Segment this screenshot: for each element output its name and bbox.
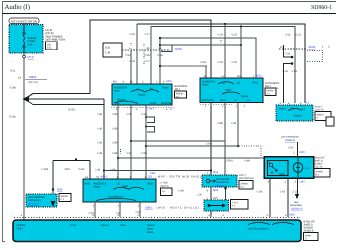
- shield box label: [103, 43, 122, 57]
- svg-text:0.5B: 0.5B: [218, 61, 224, 64]
- svg-text:ASSGLE: ASSGLE: [304, 230, 314, 233]
- wire amp out 1: [269, 178, 271, 217]
- condenser dashed box U4: [276, 105, 313, 121]
- see ground distribution dashed box: [26, 194, 57, 207]
- wire: y170 branch to amp box: [104, 170, 211, 172]
- antenna note box: [59, 194, 71, 202]
- svg-text:SP40: SP40: [150, 102, 157, 105]
- svg-text:0.5B: 0.5B: [130, 60, 136, 63]
- svg-text:0.5WL: 0.5WL: [226, 160, 234, 163]
- audio input unit box U2: [112, 84, 173, 105]
- svg-text:SD960-2: SD960-2: [216, 184, 226, 187]
- node 241,45: [240, 44, 242, 46]
- svg-text:Head: Head: [202, 84, 209, 87]
- svg-text:P1: P1: [247, 99, 251, 102]
- jog at junction J/C01: [160, 45, 172, 52]
- svg-text:105: 105: [148, 176, 153, 179]
- twisted pair dots x221: [220, 40, 222, 47]
- wire merge arrow: [23, 96, 30, 103]
- svg-text:B.B: B.B: [106, 47, 111, 50]
- svg-text:AMP: AMP: [279, 173, 285, 176]
- wire x146: [145, 105, 147, 179]
- dotted option wire to amp: [239, 146, 261, 157]
- node rear branch: [130, 140, 132, 142]
- wire x53 to ground: [52, 161, 54, 202]
- node at 104,170: [103, 169, 105, 171]
- svg-text:0.5Bv: 0.5Bv: [112, 128, 119, 131]
- node 160,38: [159, 37, 161, 39]
- svg-text:B1: B1: [237, 82, 241, 85]
- wire x225 from head unit down: [224, 103, 226, 123]
- note right of input box: [175, 85, 188, 99]
- connector row below head unit: [200, 104, 232, 106]
- svg-text:Input: Input: [114, 90, 120, 93]
- wire x90 to sound board: [89, 161, 91, 180]
- svg-text:I/P-E: I/P-E: [28, 55, 35, 59]
- svg-text:0.5BL: 0.5BL: [217, 122, 224, 125]
- wire below board 2: [119, 202, 121, 217]
- dotted box J/C02: [307, 51, 323, 62]
- svg-text:B1: B1: [116, 102, 120, 105]
- svg-text:0.5Bv: 0.5Bv: [112, 113, 119, 116]
- pins below sound board: [93, 205, 199, 210]
- pin 4b bottom + M02: [285, 214, 295, 217]
- svg-text:0.2B+: 0.2B+: [141, 152, 148, 155]
- svg-text:15A: 15A: [28, 42, 33, 46]
- svg-text:0.5Bv: 0.5Bv: [110, 169, 117, 172]
- wire x225 down: [224, 24, 226, 78]
- wire to amplifier top: [297, 142, 299, 157]
- wire x118 front speaker: [117, 105, 119, 179]
- amplifier box U6: [264, 157, 314, 179]
- note right of head unit: [265, 82, 280, 96]
- condenser pins above: [280, 102, 310, 105]
- page top border: [2, 1, 336, 3]
- wire y141 to x225: [131, 141, 225, 189]
- node 160,66: [159, 65, 161, 67]
- svg-text:UNIT: UNIT: [17, 227, 24, 231]
- svg-text:3 Kb: 3 Kb: [280, 191, 286, 194]
- svg-text:Front: Front: [70, 224, 76, 227]
- svg-text:(W/B - ROUTE SHIELD): (W/B - ROUTE SHIELD): [157, 207, 199, 210]
- note right of sound board: [161, 182, 173, 196]
- svg-text:0.5B: 0.5B: [285, 53, 291, 56]
- svg-text:SD-100-2: SD-100-2: [28, 203, 39, 206]
- wire below board 1: [94, 202, 96, 217]
- svg-text:AMP: AMP: [225, 89, 231, 92]
- svg-text:5.1G: 5.1G: [292, 70, 298, 73]
- dotted wire x144: [143, 44, 145, 64]
- svg-text:L4N: L4N: [300, 180, 305, 183]
- svg-text:P.Ba: P.Ba: [120, 224, 126, 227]
- wire x225 lower segment: [224, 122, 226, 141]
- svg-text:GROUND: GROUND: [202, 99, 214, 102]
- wire: battery branch to x104 upper: [27, 98, 104, 100]
- svg-text:Audio (I): Audio (I): [5, 4, 30, 11]
- svg-text:0.5B: 0.5B: [130, 33, 136, 36]
- node woofer branch: [145, 145, 147, 147]
- wire: loop from bus1 down-left to battery node: [27, 20, 211, 175]
- wire y158 to amplifier: [118, 157, 264, 159]
- svg-text:0.5G: 0.5G: [232, 34, 238, 37]
- svg-text:0.5B: 0.5B: [296, 34, 302, 37]
- footnote 1: [148, 176, 205, 179]
- svg-text:101: 101: [47, 47, 52, 50]
- svg-text:0.2B+: 0.2B+: [141, 113, 148, 116]
- pins above sound board: [85, 172, 155, 179]
- svg-text:M14: M14: [213, 171, 219, 174]
- svg-text:0.5B: 0.5B: [285, 34, 291, 37]
- wire x207 down: [205, 66, 207, 78]
- see connection note: [281, 136, 299, 143]
- svg-text:C.M: C.M: [105, 52, 111, 55]
- page left border: [3, 2, 6, 242]
- wire: battery branch to x104 lower: [27, 101, 104, 105]
- svg-text:0.4B: 0.4B: [97, 142, 102, 145]
- svg-text:IPM1: IPM1: [252, 82, 259, 85]
- bus wire upper black y24: [137, 24, 305, 103]
- svg-text:0.5Gr: 0.5Gr: [68, 108, 75, 112]
- node G06: [52, 188, 54, 190]
- svg-text:0.4BL: 0.4BL: [257, 191, 264, 194]
- note right of audio unit: [304, 221, 319, 241]
- pins above audio input box: [113, 80, 172, 84]
- pin below amp box: [207, 189, 219, 192]
- wire x137 down to audio unit input: [136, 24, 138, 84]
- svg-text:B1: B1: [117, 183, 121, 186]
- connector ring I/P-E: [23, 55, 26, 58]
- splice jog lower: [284, 62, 294, 103]
- svg-text:0.5G: 0.5G: [288, 147, 293, 150]
- wire below board 3: [139, 202, 141, 217]
- twisted pair dots x120: [120, 149, 122, 155]
- svg-text:0.5Gr: 0.5Gr: [200, 61, 207, 64]
- svg-text:Signal: Signal: [241, 95, 249, 98]
- svg-text:0.5Bv: 0.5Bv: [112, 142, 119, 145]
- connector row C01 dashed: [122, 49, 170, 51]
- svg-text:J/C02: J/C02: [308, 45, 316, 49]
- svg-text:M10: M10: [167, 80, 173, 83]
- svg-text:M4: M4: [113, 81, 117, 84]
- label HOT IN ACC OR ON: [9, 18, 39, 24]
- svg-text:22: 22: [170, 108, 173, 111]
- svg-text:3.0B: 3.0B: [231, 122, 236, 125]
- wire x151 down: [150, 27, 152, 85]
- svg-text:5.8W: 5.8W: [79, 168, 85, 171]
- twisted pair jog A: [145, 116, 155, 123]
- svg-text:0.4Bv: 0.4Bv: [244, 160, 251, 163]
- wire y38 branch: [160, 38, 256, 78]
- pin 1 902: [207, 197, 218, 200]
- svg-text:Mode: Mode: [147, 231, 154, 234]
- node option tap: [224, 187, 226, 189]
- pin 2 amp top: [293, 151, 304, 154]
- svg-text:(SD960-4): (SD960-4): [291, 208, 303, 211]
- pins above head unit box: [204, 75, 255, 78]
- note right of amplifier: [314, 157, 330, 178]
- svg-text:1.2B: 1.2B: [197, 194, 202, 197]
- svg-text:AM.1: AM.1: [175, 88, 181, 91]
- note right of amp box: [239, 174, 255, 189]
- svg-text:M02: M02: [290, 214, 296, 217]
- pin above amp note box: [207, 171, 219, 174]
- ground G06 symbol: [51, 201, 56, 207]
- pins below input box: [116, 108, 173, 111]
- option splice dashed box: [204, 200, 229, 211]
- svg-text:0.5G: 0.5G: [232, 61, 238, 64]
- wire below amp box: [210, 187, 212, 217]
- svg-text:GND: GND: [85, 183, 91, 186]
- svg-text:C4B-1: C4B-1: [145, 207, 153, 210]
- continuation arrow down: [295, 194, 299, 199]
- title underline: [2, 13, 336, 15]
- svg-text:DISTRIBUTION: DISTRIBUTION: [46, 38, 66, 42]
- fuse F1 AUDIO 15A: [23, 25, 37, 54]
- svg-text:0.5Y: 0.5Y: [145, 33, 151, 36]
- bus wire gray y26.5: [151, 27, 295, 104]
- svg-text:L2: L2: [306, 102, 309, 105]
- wire amp out 3 with arrow: [297, 178, 299, 194]
- node 238,146: [237, 145, 239, 147]
- svg-text:TD4-2: TD4-2: [147, 108, 155, 111]
- note right of condenser: [315, 106, 334, 127]
- svg-text:0.4B: 0.4B: [97, 113, 102, 116]
- connector row J/C02 dashed: [279, 48, 307, 50]
- svg-text:0.5B: 0.5B: [127, 152, 132, 155]
- svg-text:SP40: SP40: [220, 99, 227, 102]
- svg-text:LOC.10: LOC.10: [314, 166, 323, 169]
- wire x238 from head unit down: [237, 103, 239, 147]
- svg-text:0.4B: 0.4B: [97, 152, 102, 155]
- svg-text:(I/P 1.0): (I/P 1.0): [29, 81, 38, 84]
- svg-text:G06: G06: [57, 188, 63, 192]
- sound board box U5: [83, 179, 156, 202]
- node on bus y26.5: [240, 25, 242, 27]
- svg-text:(59dB-4): (59dB-4): [285, 139, 295, 142]
- node front-left branch: [117, 157, 119, 159]
- svg-text:0.5Bv: 0.5Bv: [112, 152, 119, 155]
- svg-text:LCD-TV: LCD-TV: [315, 109, 324, 112]
- tick on rail: [75, 159, 77, 162]
- svg-text:HOT IN ACC OR ON: HOT IN ACC OR ON: [11, 19, 37, 23]
- ground rail: [53, 160, 90, 162]
- svg-text:0.5Y: 0.5Y: [145, 60, 151, 63]
- svg-text:Drivel: Drivel: [279, 108, 286, 111]
- connector row below input box: [111, 107, 176, 109]
- svg-text:0.5B: 0.5B: [127, 113, 132, 116]
- wire y66 branch: [160, 65, 207, 67]
- svg-text:0.5ln: 0.5ln: [125, 54, 131, 57]
- wire: main battery feed 0.5Br: [23, 53, 25, 220]
- svg-text:3KW: 3KW: [65, 168, 71, 171]
- svg-text:GND: GND: [147, 183, 153, 186]
- wire x131: [130, 105, 132, 179]
- pins below head unit: [205, 105, 246, 108]
- svg-text:SD960-1: SD960-1: [311, 5, 332, 11]
- svg-text:: W/R - R5/TR W/B SHIELD: : W/R - R5/TR W/B SHIELD: [155, 176, 204, 179]
- svg-text:ILL.: ILL.: [306, 167, 310, 170]
- amp option dashed box U8: [202, 175, 237, 187]
- wire x160 down: [159, 38, 161, 84]
- bottom connector dashed row: [14, 217, 300, 219]
- audio head unit box U3: [200, 78, 263, 103]
- svg-text:0.5B: 0.5B: [283, 70, 289, 73]
- svg-text:0.4B: 0.4B: [95, 169, 100, 172]
- wire: x104 vertical black to sound board: [103, 99, 105, 179]
- svg-text:0.5L: 0.5L: [10, 69, 16, 73]
- svg-text:0.3KB: 0.3KB: [42, 168, 49, 171]
- svg-text:0.4B: 0.4B: [97, 128, 102, 131]
- svg-text:0.5Br: 0.5Br: [144, 54, 150, 57]
- wire y146 to x238: [146, 145, 238, 147]
- twisted pair jog B: [145, 126, 155, 133]
- see ground note: [290, 201, 303, 211]
- svg-text:0.4BL: 0.4BL: [178, 190, 185, 193]
- fuse box (I/P junction box): [9, 25, 43, 54]
- svg-text:PACTO: PACTO: [161, 185, 169, 188]
- svg-text:Signal: Signal: [138, 94, 146, 97]
- svg-text:2.11: 2.11: [293, 191, 298, 194]
- node 160,45: [159, 44, 161, 46]
- svg-text:0.5Br: 0.5Br: [10, 86, 17, 90]
- joint J/M01: [18, 75, 47, 84]
- svg-text:D.1: D.1: [241, 186, 245, 189]
- wire amp out 2: [287, 178, 289, 217]
- svg-text:GROUND: GROUND: [161, 102, 173, 105]
- svg-text:M06: M06: [213, 189, 219, 192]
- svg-text:AM.1: AM.1: [265, 85, 271, 88]
- svg-text:Sound: Sound: [101, 224, 109, 227]
- note: see power distribution: [46, 28, 66, 50]
- svg-text:Orien: Orien: [162, 87, 169, 90]
- node on bus y24: [224, 23, 226, 25]
- audio unit bar U9: [13, 220, 301, 242]
- svg-text:3 KB: 3 KB: [206, 143, 212, 146]
- svg-text:(shield) connector: (shield) connector: [248, 228, 269, 231]
- pins below amplifier: [268, 180, 305, 183]
- wire option tap down: [225, 189, 227, 207]
- wire y45 branch to condenser: [172, 44, 241, 46]
- wire x241 down: [240, 27, 242, 79]
- svg-text:0.5lw: 0.5lw: [157, 54, 163, 57]
- svg-text:Signal: Signal: [294, 115, 302, 118]
- node at 211,170: [210, 169, 212, 171]
- svg-text:0.5Br: 0.5Br: [9, 115, 16, 119]
- svg-text:62N: 62N: [300, 151, 305, 154]
- note box right of splice: [231, 200, 249, 210]
- dotted wire x131: [130, 43, 132, 50]
- svg-text:J/M01: J/M01: [29, 75, 37, 79]
- svg-text:RR.CENTRAL: RR.CENTRAL: [239, 177, 255, 180]
- svg-text:0.5B: 0.5B: [218, 34, 224, 37]
- svg-text:Head: Head: [94, 186, 101, 189]
- splice jog upper: [284, 45, 294, 58]
- svg-text:M10: M10: [256, 75, 262, 78]
- svg-text:J/C01: J/C01: [175, 47, 183, 51]
- svg-text:A06-1: A06-1: [101, 176, 109, 179]
